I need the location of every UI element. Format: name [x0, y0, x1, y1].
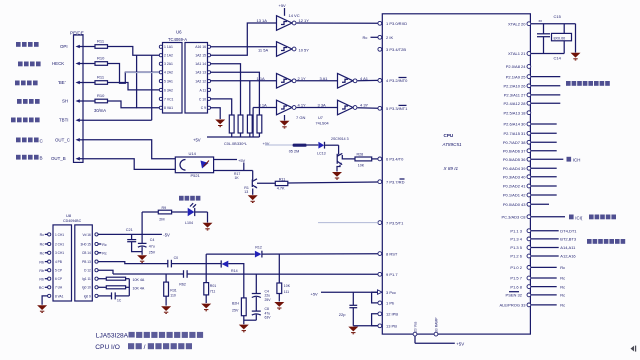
svg-text:+5V: +5V	[238, 158, 246, 163]
svg-text:10K: 10K	[358, 164, 365, 168]
svg-text:4 3Y: 4 3Y	[360, 103, 369, 108]
svg-text:2 CH1: 2 CH1	[55, 242, 64, 246]
svg-text:6 CP: 6 CP	[55, 277, 62, 281]
svg-text:CB 14: CB 14	[82, 251, 91, 255]
svg-text:P0.3/AD3 40: P0.3/AD3 40	[503, 174, 526, 179]
svg-text:1 1A: 1 1A	[257, 76, 266, 81]
svg-text:1 1A1: 1 1A1	[164, 45, 173, 49]
svg-text:20 Vss: 20 Vss	[414, 321, 418, 332]
svg-text:4 1Y: 4 1Y	[298, 103, 307, 108]
svg-text:7 P3.7/RD: 7 P3.7/RD	[386, 179, 405, 184]
svg-text:30 RAMP: 30 RAMP	[435, 317, 439, 332]
svg-text:4 2A2: 4 2A2	[164, 71, 173, 75]
svg-text:8 RST: 8 RST	[386, 251, 398, 256]
svg-text:P2.7/A15 31: P2.7/A15 31	[503, 131, 526, 136]
svg-text:3 2A1: 3 2A1	[164, 62, 173, 66]
svg-text:P0.6/AD6 37: P0.6/AD6 37	[503, 148, 526, 153]
svg-text:P0.0/AD0 43: P0.0/AD0 43	[503, 202, 526, 207]
svg-text:DT4,DT1: DT4,DT1	[560, 228, 577, 233]
svg-text:C21: C21	[126, 228, 133, 232]
svg-text:R11: R11	[97, 39, 105, 44]
svg-text:XTAL1 21: XTAL1 21	[508, 51, 526, 56]
svg-text:Rc: Rc	[363, 35, 368, 40]
svg-text:P1.6 8: P1.6 8	[510, 284, 522, 289]
svg-text:3H0 15: 3H0 15	[81, 242, 92, 246]
svg-text:P2.6/A14 30: P2.6/A14 30	[503, 122, 526, 127]
svg-text:R14: R14	[231, 269, 238, 273]
svg-text:PB 13: PB 13	[82, 260, 91, 264]
svg-text:P0.5/AD5 36: P0.5/AD5 36	[503, 157, 526, 162]
svg-text:-5V: -5V	[163, 233, 170, 238]
svg-text:TC4069-A: TC4069-A	[168, 37, 187, 42]
svg-text:6 3A2: 6 3A2	[164, 88, 173, 92]
svg-text:Vd 16: Vd 16	[82, 233, 91, 237]
svg-text:3 Pcc: 3 Pcc	[386, 290, 396, 295]
svg-text:7 P3.5/T1: 7 P3.5/T1	[386, 220, 404, 225]
svg-text:C 10: C 10	[199, 97, 206, 101]
svg-text:SH: SH	[62, 99, 68, 104]
svg-text:P2.1/A9 25: P2.1/A9 25	[506, 74, 527, 79]
svg-text:C0: C0	[174, 256, 179, 260]
svg-text:U7: U7	[318, 116, 323, 120]
svg-text:CD4094BC: CD4094BC	[63, 219, 82, 223]
svg-text:A 11: A 11	[199, 88, 206, 92]
svg-text:13 PB: 13 PB	[386, 324, 397, 329]
svg-text:P2.2/A10 26: P2.2/A10 26	[503, 84, 526, 89]
svg-text:P1.1 3: P1.1 3	[510, 228, 522, 233]
svg-text:2 IK: 2 IK	[386, 35, 393, 40]
svg-text:25V: 25V	[232, 309, 239, 313]
svg-text:5 CP: 5 CP	[55, 269, 62, 273]
svg-text:R12: R12	[255, 246, 262, 250]
svg-text:1K: 1K	[235, 176, 240, 180]
svg-text:X 89 I1: X 89 I1	[443, 166, 459, 171]
svg-text:R31: R31	[170, 288, 176, 292]
svg-text:P2.4/A12 28: P2.4/A12 28	[503, 101, 526, 106]
svg-text:12 1Y: 12 1Y	[299, 18, 310, 23]
svg-text:Rc: Rc	[560, 293, 565, 298]
svg-text:3 A1: 3 A1	[320, 76, 329, 81]
svg-text:P0.7/AD7 38: P0.7/AD7 38	[503, 140, 526, 145]
svg-text:P1.3 5: P1.3 5	[510, 245, 522, 250]
svg-text:2SC9014 3: 2SC9014 3	[331, 137, 349, 141]
svg-text:R01: R01	[210, 284, 216, 288]
svg-text:1A2 15: 1A2 15	[195, 54, 206, 58]
svg-text:3 3A: 3 3A	[318, 103, 327, 108]
svg-text:'BE': 'BE'	[58, 80, 66, 85]
svg-text:CPU I/O: CPU I/O	[95, 344, 120, 351]
svg-text:L104: L104	[185, 221, 193, 225]
svg-text:/: /	[144, 344, 146, 351]
svg-text:C0L.0B: C0L.0B	[224, 142, 237, 146]
svg-text:R11: R11	[279, 177, 286, 181]
svg-text:ICI(: ICI(	[575, 215, 583, 220]
svg-text:Ig1 11: Ig1 11	[82, 277, 91, 281]
svg-text:LJA53I28A: LJA53I28A	[96, 333, 129, 340]
svg-text:+5V: +5V	[311, 291, 319, 296]
svg-text:Rc: Rc	[560, 284, 565, 289]
svg-text:1 CH1: 1 CH1	[55, 233, 64, 237]
svg-text:Rc: Rc	[560, 303, 565, 308]
svg-text:Rc: Rc	[102, 243, 107, 247]
svg-text:8 VA1: 8 VA1	[55, 294, 64, 298]
svg-text:10 5Y: 10 5Y	[299, 48, 310, 53]
svg-text:OUT_B: OUT_B	[51, 156, 66, 161]
svg-text:5 P3.3/INT1: 5 P3.3/INT1	[386, 106, 408, 111]
svg-text:C15: C15	[554, 14, 562, 19]
svg-text:30/mA: 30/mA	[94, 108, 106, 113]
svg-text:ALE/PROG 33: ALE/PROG 33	[499, 303, 526, 308]
svg-text:3 CH1: 3 CH1	[55, 251, 64, 255]
svg-text:1 Pb: 1 Pb	[386, 301, 395, 306]
svg-text:P521: P521	[191, 173, 201, 178]
svg-text:Ig0 10: Ig0 10	[82, 286, 91, 290]
svg-text:3 P3.4/T2B: 3 P3.4/T2B	[386, 47, 406, 52]
svg-text:HECK: HECK	[52, 61, 64, 66]
svg-text:4 PB: 4 PB	[55, 260, 62, 264]
svg-text:25V: 25V	[149, 251, 156, 255]
svg-text:74LS04: 74LS04	[316, 122, 329, 126]
svg-text:13: 13	[244, 190, 248, 194]
svg-text:711: 711	[210, 289, 216, 293]
svg-text:A16 16: A16 16	[195, 45, 206, 49]
svg-text:Rc: Rc	[102, 252, 107, 256]
svg-text:BT2,BT3: BT2,BT3	[560, 237, 577, 242]
svg-text:A14,A11: A14,A11	[560, 245, 576, 250]
svg-text:OPI: OPI	[60, 44, 68, 49]
svg-text:8X0.00: 8X0.00	[554, 37, 566, 41]
svg-text:111: 111	[284, 290, 289, 294]
svg-text:330*L: 330*L	[237, 142, 247, 146]
svg-text:P1.3 4: P1.3 4	[510, 237, 522, 242]
svg-text:47u: 47u	[149, 244, 155, 248]
svg-text:C14: C14	[554, 56, 562, 61]
svg-text:13 1A: 13 1A	[257, 18, 268, 23]
svg-text:10K: 10K	[284, 284, 291, 288]
svg-text:05 2M: 05 2M	[289, 150, 300, 154]
svg-text:PC.3/AD3 C8: PC.3/AD3 C8	[501, 214, 526, 219]
svg-text:1 P3.0/RXD: 1 P3.0/RXD	[386, 21, 407, 26]
svg-text:Rb: Rb	[39, 277, 44, 281]
svg-text:4.7K: 4.7K	[277, 187, 285, 191]
svg-text:22p: 22p	[339, 312, 346, 317]
svg-text:25V: 25V	[265, 298, 272, 302]
svg-text:P2.3/A11 27: P2.3/A11 27	[504, 93, 526, 98]
svg-text:OUT_C: OUT_C	[55, 137, 70, 142]
svg-text:+5V: +5V	[456, 342, 464, 347]
svg-text:1A2 12: 1A2 12	[195, 80, 206, 84]
svg-text:63V: 63V	[265, 316, 272, 320]
svg-text:Rc: Rc	[40, 233, 45, 237]
svg-text:2M: 2M	[159, 217, 164, 221]
svg-text:Rc: Rc	[560, 276, 565, 281]
svg-text:R10: R10	[97, 56, 105, 61]
svg-text:10K 4A: 10K 4A	[133, 287, 145, 291]
svg-text:CPU: CPU	[444, 133, 454, 138]
svg-text:7 UA: 7 UA	[55, 286, 63, 290]
svg-text:B2H: B2H	[232, 301, 239, 305]
svg-text:LC13: LC13	[317, 152, 326, 156]
svg-text:P0.1/AD1 42: P0.1/AD1 42	[503, 193, 526, 198]
svg-text:Rc: Rc	[40, 243, 45, 247]
svg-text:xx: xx	[539, 19, 543, 23]
svg-text:B: B	[40, 156, 43, 161]
svg-text:+5V: +5V	[279, 3, 287, 8]
svg-text:PSEN 32: PSEN 32	[506, 293, 523, 298]
svg-text:12 IPB: 12 IPB	[386, 312, 398, 317]
svg-text:1C: 1C	[117, 299, 122, 303]
svg-text:ICH: ICH	[573, 158, 581, 163]
svg-text:2 1Y: 2 1Y	[298, 76, 307, 81]
svg-text:9 P1.7: 9 P1.7	[386, 272, 398, 277]
svg-text:2 1A2: 2 1A2	[164, 54, 173, 58]
svg-text:U14: U14	[189, 151, 197, 156]
svg-text:D 12: D 12	[84, 269, 91, 273]
svg-text:XTAL2 20: XTAL2 20	[508, 21, 526, 26]
svg-text:P2.0/A8 24: P2.0/A8 24	[506, 64, 527, 69]
svg-text:U6: U6	[176, 30, 182, 35]
svg-text:+5V: +5V	[193, 138, 201, 143]
svg-text:R62: R62	[179, 282, 186, 286]
svg-text:P0.2/AD2 41: P0.2/AD2 41	[503, 184, 526, 189]
svg-text:C4: C4	[150, 238, 155, 242]
svg-text:6 P3.4/T0: 6 P3.4/T0	[386, 157, 404, 162]
svg-text:Ig0 9: Ig0 9	[84, 294, 91, 298]
svg-text:R1: R1	[244, 186, 249, 190]
svg-text:A12,A16: A12,A16	[560, 254, 576, 259]
svg-text:P1.5 7: P1.5 7	[510, 276, 522, 281]
svg-text:5 3A1: 5 3A1	[164, 80, 173, 84]
svg-text:10K 4A: 10K 4A	[133, 278, 145, 282]
svg-text:3 1A: 3 1A	[259, 102, 268, 107]
svg-text:11 5A: 11 5A	[258, 48, 268, 53]
svg-text:TBTI: TBTI	[59, 118, 69, 123]
svg-text:RC: RC	[39, 286, 45, 290]
svg-text:U8: U8	[66, 213, 72, 218]
svg-text:P1.0 2: P1.0 2	[510, 265, 522, 270]
svg-text:Rb: Rb	[39, 269, 44, 273]
svg-text:7 GN: 7 GN	[296, 115, 305, 120]
svg-text:R11: R11	[97, 75, 105, 80]
svg-text:1A3 13: 1A3 13	[195, 71, 206, 75]
svg-text:110: 110	[170, 293, 176, 297]
svg-text:P1.2 6: P1.2 6	[510, 254, 522, 259]
svg-text:AT89C51: AT89C51	[442, 142, 463, 147]
svg-text:4 P3.2/INT0: 4 P3.2/INT0	[386, 78, 408, 83]
svg-text:R28: R28	[357, 153, 364, 157]
svg-text:P0.4/AD4 39: P0.4/AD4 39	[503, 166, 526, 171]
svg-text:1A1 14: 1A1 14	[195, 62, 206, 66]
svg-text:7 VC1: 7 VC1	[164, 97, 174, 101]
svg-text:R9: R9	[162, 206, 167, 210]
svg-text:Rc: Rc	[560, 265, 565, 270]
svg-text:P2.5/A13 18: P2.5/A13 18	[503, 110, 526, 115]
svg-text:Rb: Rb	[39, 260, 44, 264]
svg-text:C 9: C 9	[201, 106, 206, 110]
svg-text:R10: R10	[97, 93, 105, 98]
svg-text:8 VA1: 8 VA1	[164, 106, 173, 110]
svg-text:Rc: Rc	[40, 252, 45, 256]
